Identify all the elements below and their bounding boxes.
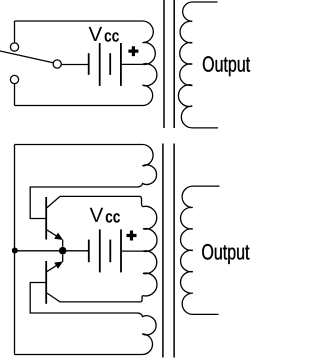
transformer T2 primary winding section C (bottom, feedback) bbox=[138, 313, 156, 355]
switch SW1 throw terminal 2 bbox=[10, 75, 18, 83]
wire Q2 collector bbox=[47, 293, 143, 302]
switch SW1 lever bbox=[0, 51, 53, 63]
battery B2 plate short bbox=[109, 240, 111, 263]
label Vcc (bottom battery) bbox=[90, 208, 120, 223]
transformer T1 primary winding bbox=[143, 21, 157, 106]
wire feedback tap B to Q2 base network bbox=[30, 283, 138, 314]
wire throw-2 to bottom rail bbox=[14, 84, 16, 106]
label Output (bottom transformer) bbox=[202, 244, 249, 264]
transformer T2 primary winding section B (collector-collector) bbox=[143, 206, 157, 296]
wire bottom-circuit left vertical (input line) bbox=[14, 145, 16, 355]
transformer T2 primary winding section A (top, feedback) bbox=[138, 145, 157, 188]
wire battery positive to primary center tap bbox=[122, 250, 144, 252]
wire top-circuit top rail bbox=[15, 20, 143, 22]
label + (bottom battery positive) bbox=[127, 231, 137, 241]
label + (top battery positive) bbox=[128, 46, 138, 56]
battery B2 plate tall (pos outer) bbox=[120, 229, 122, 272]
wire top-circuit left vertical to switch throw 1 bbox=[14, 21, 16, 43]
label Vcc (top battery) bbox=[89, 27, 119, 42]
node emitter junction bbox=[59, 247, 67, 255]
transformer T2 secondary winding bbox=[181, 186, 220, 314]
wire bottom-circuit bottom rail bbox=[15, 354, 143, 356]
node input junction bbox=[12, 248, 18, 254]
transformer T1 secondary winding bbox=[178, 2, 218, 128]
wire input to battery negative (common rail) bbox=[15, 250, 89, 252]
wire Q1 collector bbox=[47, 196, 143, 207]
wire bottom-circuit top rail (Q1 collector loop) bbox=[15, 144, 143, 146]
battery B1 plate short (neg outer) bbox=[88, 53, 90, 75]
wire feedback tap A to Q1 base network bbox=[30, 187, 138, 219]
transformer T2 core bbox=[163, 144, 174, 358]
transistor Q1 base bar bbox=[45, 197, 47, 240]
battery B1 plate short bbox=[109, 53, 111, 75]
transistor Q2 emitter with arrow bbox=[47, 255, 63, 272]
transformer T1 core bbox=[164, 0, 174, 128]
switch SW1 throw terminal 1 bbox=[10, 43, 18, 51]
switch SW1 pole terminal bbox=[53, 60, 61, 68]
transistor Q1 emitter with arrow bbox=[47, 230, 63, 247]
battery B2 plate tall bbox=[99, 229, 101, 272]
transistor Q2 base bar bbox=[45, 261, 47, 304]
battery B1 plate tall (pos outer) bbox=[120, 43, 122, 86]
battery B1 plate tall bbox=[99, 43, 101, 86]
wire switch pole to battery negative bbox=[61, 64, 88, 66]
label Output (top transformer) bbox=[203, 56, 250, 76]
wire battery positive to primary tap bbox=[122, 63, 142, 65]
battery B2 plate short (neg outer) bbox=[88, 240, 90, 263]
wire top-circuit bottom rail bbox=[15, 105, 143, 107]
